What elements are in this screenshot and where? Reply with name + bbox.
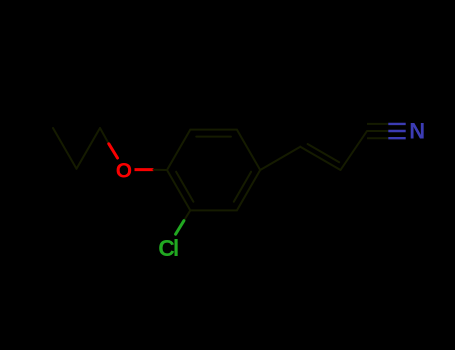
svg-text:N: N <box>409 119 425 144</box>
svg-text:l: l <box>173 235 179 261</box>
benzene ring outer edges <box>167 130 260 211</box>
wire: propyl chain bond C2-C1 <box>77 128 101 169</box>
svg-text:O: O <box>116 159 132 182</box>
wire: bond ring-Cl green part <box>176 221 184 235</box>
triple bond C9-N blue parts <box>388 124 405 138</box>
wire: bond ring-Cl dark part <box>184 210 190 220</box>
benzene inner double bond top <box>196 136 231 138</box>
wire: bond C1-O red part <box>109 144 118 158</box>
triple bond C9-N dark parts <box>367 124 388 138</box>
wire: double bond C7=C8 second line <box>308 144 340 162</box>
benzene inner double bond right-bottom <box>234 172 251 202</box>
wire: bond O-ring dark part <box>154 169 168 171</box>
benzene inner double bond left-bottom <box>176 172 193 202</box>
wire: bond O-ring red part <box>135 168 154 171</box>
wire: propyl chain bond C3-C2 <box>53 128 77 169</box>
wire: double bond C7=C8 main <box>300 147 340 170</box>
wire: vinyl bond ring-C7 <box>260 147 300 170</box>
wire: bond C1-O dark part <box>100 128 109 144</box>
wire: bond C8-C9 <box>341 131 368 170</box>
